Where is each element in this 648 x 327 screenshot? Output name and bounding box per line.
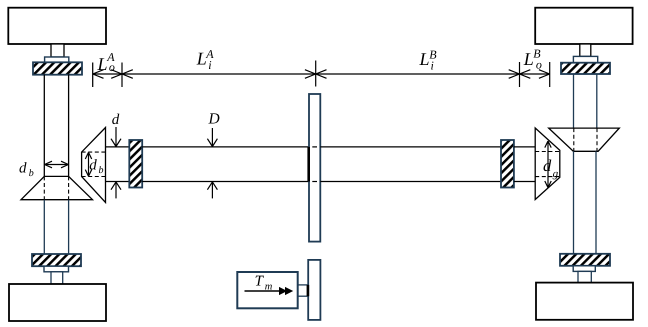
- label d_g: [543, 156, 559, 180]
- svg-text:b: b: [29, 168, 34, 179]
- axle stub front-left wide: [45, 57, 69, 63]
- bearing front-right: [561, 63, 610, 74]
- svg-text:i: i: [208, 58, 211, 72]
- label d_b axle: [19, 161, 34, 180]
- motor pinion disk: [308, 260, 320, 320]
- svg-text:L: L: [419, 49, 430, 69]
- hidden bore lines in left axle gear: [44, 176, 68, 199]
- label T_m: [255, 274, 273, 293]
- label D: [208, 110, 220, 127]
- wheel rear-right: [536, 283, 633, 320]
- arrow d bottom: [111, 182, 121, 199]
- shaft stub left (diameter d): [106, 147, 130, 182]
- bevel gear right axle: [549, 128, 620, 151]
- centre disk (gear wheel): [309, 94, 320, 242]
- label L_i^B: [419, 48, 438, 73]
- dimension arrow d_b bore: [85, 152, 91, 176]
- arrow D bottom: [207, 182, 217, 199]
- motor shaft stub: [298, 285, 308, 296]
- bevel gear left axle: [21, 176, 93, 199]
- axle shaft front-left upper segment: [44, 75, 68, 177]
- svg-text:o: o: [109, 60, 115, 74]
- wheel front-left: [8, 8, 106, 44]
- arrow d top: [111, 127, 121, 147]
- axle shaft front-right lower segment: [574, 151, 597, 254]
- label L_o^A: [97, 50, 116, 74]
- axle stub rear-left wide: [44, 266, 69, 272]
- main shaft segment A: [142, 147, 309, 182]
- axle shaft front-left lower segment: [44, 200, 68, 254]
- extension tick left inner: [121, 63, 123, 88]
- dimension line L_o^B: [520, 70, 550, 79]
- bore dashed lines left pinion: [82, 152, 106, 176]
- bearing main-shaft left: [129, 140, 142, 188]
- svg-text:d: d: [112, 112, 120, 128]
- shaft end thick line at disk: [307, 147, 310, 182]
- axle stub rear-left narrow: [51, 272, 63, 284]
- shaft stub right: [514, 147, 535, 182]
- dimension arrow d_b axle: [45, 161, 69, 168]
- svg-text:i: i: [431, 59, 434, 73]
- dimension arrow d_g: [545, 141, 551, 188]
- svg-text:L: L: [523, 49, 534, 69]
- bearing front-left: [33, 62, 82, 74]
- svg-text:g: g: [553, 168, 559, 180]
- label L_o^B: [523, 47, 542, 72]
- dimension line L_i^A: [122, 70, 316, 79]
- svg-text:L: L: [97, 54, 108, 74]
- label L_i^A: [196, 47, 215, 72]
- svg-text:d: d: [19, 161, 27, 177]
- bevel pinion left (on main shaft): [82, 128, 106, 203]
- dimension line L_o^A: [93, 70, 122, 79]
- bore dashed lines right pinion: [535, 152, 560, 177]
- axle stub front-right wide: [573, 56, 597, 62]
- svg-text:d: d: [89, 158, 97, 174]
- hidden bore lines in right axle gear: [574, 128, 597, 151]
- arrow D top: [207, 128, 217, 147]
- extension tick left outer: [92, 63, 94, 88]
- hidden shaft lines inside disk: [312, 147, 317, 182]
- svg-text:D: D: [208, 110, 220, 127]
- svg-text:b: b: [99, 165, 104, 176]
- main shaft segment B: [320, 147, 501, 182]
- axle stub front-right narrow: [580, 44, 591, 56]
- extension tick right outer: [549, 62, 551, 87]
- label d_b bore: [89, 158, 103, 177]
- axle stub front-left narrow: [51, 44, 64, 57]
- wheel rear-left: [9, 284, 106, 321]
- motor shaft end thick line: [307, 285, 310, 296]
- dimension line L_i^B: [316, 70, 520, 79]
- svg-text:o: o: [536, 58, 542, 72]
- motor box: [237, 272, 297, 308]
- axle shaft front-right upper segment: [574, 74, 597, 128]
- bearing rear-right: [560, 254, 610, 266]
- svg-text:d: d: [543, 156, 552, 175]
- torque arrow T_m: [245, 287, 294, 295]
- axle stub rear-right wide: [573, 266, 595, 272]
- extension line centre: [315, 61, 317, 87]
- svg-text:L: L: [196, 49, 207, 69]
- axle stub rear-right narrow: [578, 271, 591, 282]
- label d: [112, 112, 120, 128]
- bevel pinion right (on main shaft): [535, 128, 560, 200]
- bearing rear-left: [32, 254, 81, 266]
- bearing main-shaft right: [501, 140, 514, 188]
- wheel front-right: [535, 8, 632, 44]
- extension tick right inner: [519, 62, 521, 87]
